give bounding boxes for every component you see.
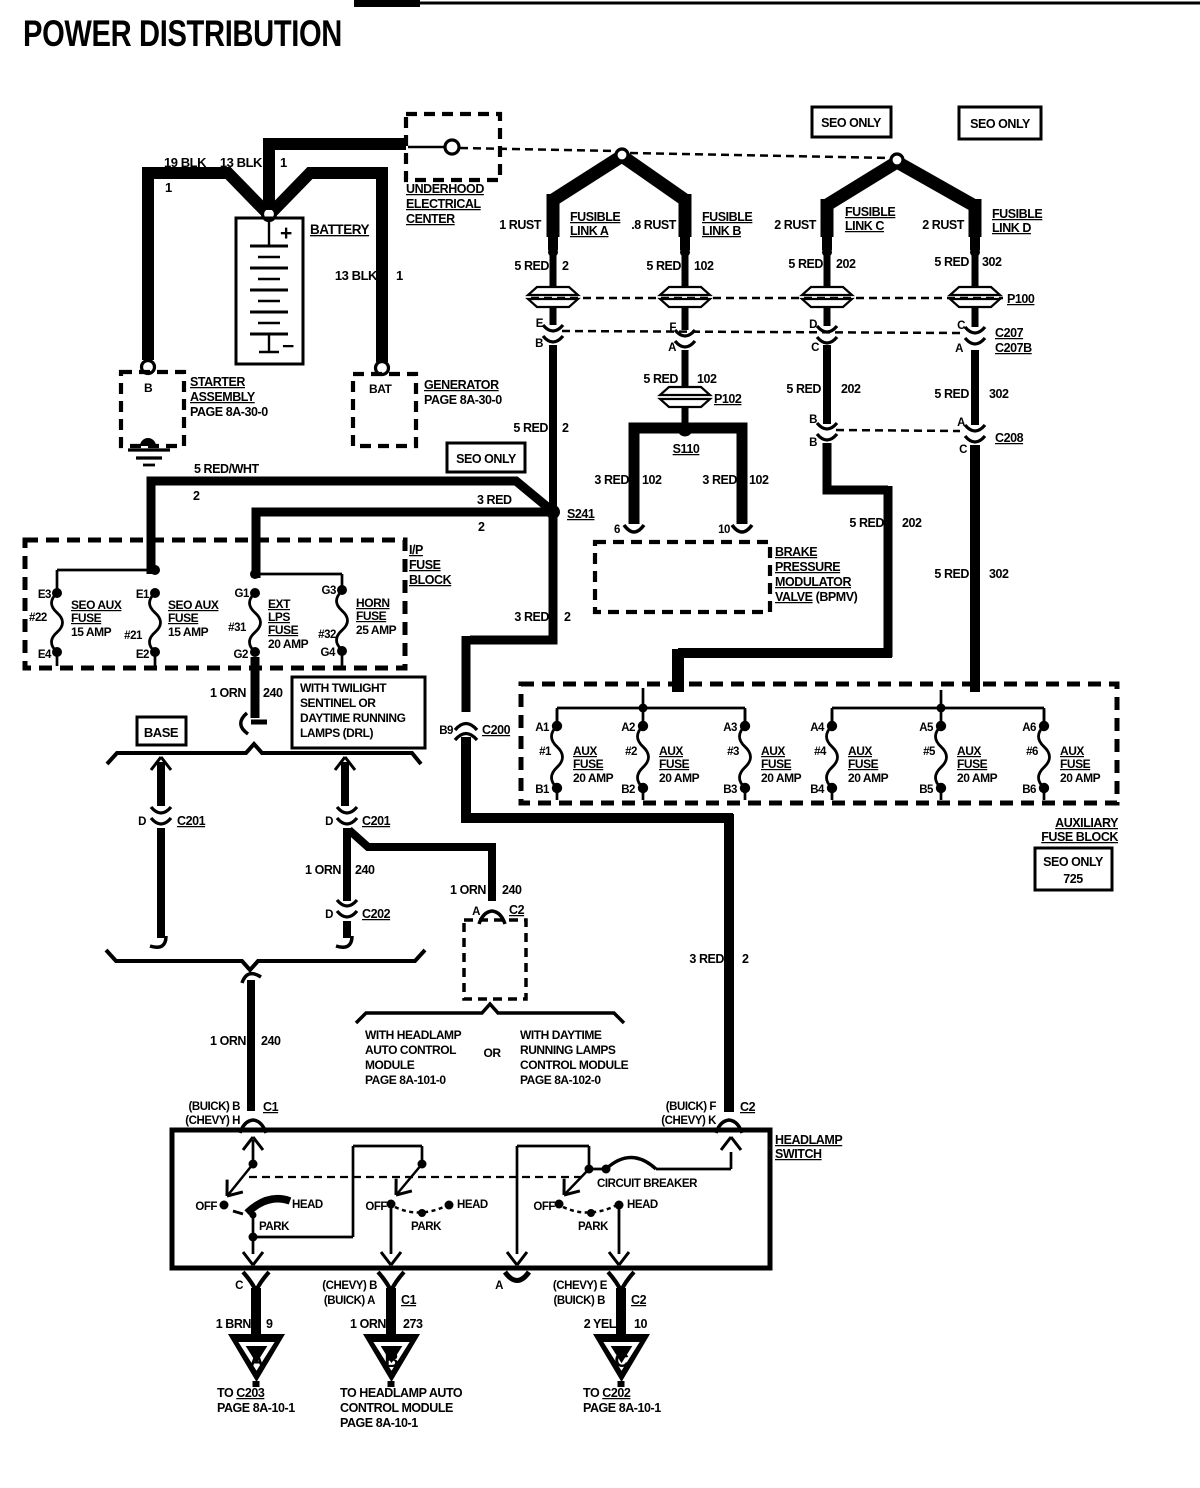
wire fusible link feed LINK C	[821, 199, 834, 237]
svg-text:5 RED: 5 RED	[643, 372, 678, 386]
svg-text:C207B: C207B	[995, 341, 1032, 355]
svg-text:PAGE 8A-10-1: PAGE 8A-10-1	[217, 1401, 295, 1415]
svg-text:25 AMP: 25 AMP	[356, 623, 397, 637]
svg-text:B9: B9	[439, 725, 453, 737]
svg-text:D: D	[325, 816, 333, 828]
switch 2 feed junction	[418, 1160, 427, 1169]
triangle connector A to C203	[228, 1334, 285, 1382]
svg-text:PAGE 8A-30-0: PAGE 8A-30-0	[190, 405, 268, 419]
fuse AUX #3 20 AMP	[744, 710, 747, 722]
svg-text:FUSE: FUSE	[356, 609, 387, 623]
svg-text:C208: C208	[995, 431, 1024, 445]
svg-text:725: 725	[1063, 872, 1083, 886]
svg-text:1 ORN: 1 ORN	[210, 1034, 246, 1048]
svg-text:PAGE 8A-102-0: PAGE 8A-102-0	[520, 1073, 601, 1087]
switch 2 output to pin B	[390, 1208, 393, 1254]
svg-text:SWITCH: SWITCH	[775, 1147, 822, 1161]
wire 13 BLK battery to underhood electrical center	[263, 144, 275, 210]
svg-text:POWER DISTRIBUTION: POWER DISTRIBUTION	[23, 13, 342, 54]
svg-text:A: A	[955, 343, 963, 355]
svg-text:A: A	[250, 1350, 264, 1372]
svg-text:20 AMP: 20 AMP	[659, 771, 700, 785]
connector C2 pin K into switch	[716, 1120, 742, 1133]
svg-text:AUX: AUX	[659, 744, 683, 758]
svg-text:S241: S241	[567, 507, 595, 521]
fuse AUX #6 20 AMP	[1043, 710, 1046, 722]
svg-text:SEO ONLY: SEO ONLY	[456, 452, 517, 466]
svg-text:TO C202: TO C202	[583, 1386, 631, 1400]
connector pass-through P102	[660, 387, 710, 407]
wire C202 down to option bracket	[343, 921, 351, 938]
svg-text:2 YEL: 2 YEL	[584, 1317, 617, 1331]
svg-text:5 RED: 5 RED	[934, 255, 969, 269]
svg-text:HEAD: HEAD	[457, 1199, 488, 1211]
svg-text:PAGE 8A-30-0: PAGE 8A-30-0	[424, 393, 502, 407]
svg-text:WITH HEADLAMP: WITH HEADLAMP	[365, 1028, 462, 1042]
svg-text:E1: E1	[136, 589, 150, 601]
svg-text:SENTINEL OR: SENTINEL OR	[300, 696, 376, 710]
svg-text:PAGE 8A-101-0: PAGE 8A-101-0	[365, 1073, 446, 1087]
svg-text:20 AMP: 20 AMP	[761, 771, 802, 785]
wire C201 left down to option bracket	[157, 828, 165, 938]
wire P102 to S110	[682, 407, 689, 424]
connector pass-through P100 leg C	[802, 287, 852, 307]
svg-text:#4: #4	[814, 746, 827, 758]
svg-text:#22: #22	[29, 612, 47, 624]
svg-text:FUSIBLE: FUSIBLE	[992, 207, 1042, 221]
svg-text:A: A	[472, 906, 480, 918]
connector C208 A-C leg D	[965, 425, 985, 442]
svg-text:LINK B: LINK B	[702, 224, 741, 238]
svg-text:5 RED: 5 RED	[514, 259, 549, 273]
svg-text:240: 240	[261, 1034, 281, 1048]
svg-text:CONTROL MODULE: CONTROL MODULE	[520, 1058, 629, 1072]
svg-text:202: 202	[841, 382, 861, 396]
connector pass-through P100 leg D	[950, 287, 1000, 307]
connector half at G2 wire end	[241, 713, 248, 734]
svg-text:DAYTIME RUNNING: DAYTIME RUNNING	[300, 711, 406, 725]
svg-text:240: 240	[502, 883, 522, 897]
battery BATTERY	[236, 218, 303, 364]
svg-text:2: 2	[562, 259, 569, 273]
svg-text:AUXILIARY: AUXILIARY	[1055, 816, 1119, 830]
wire 5 RED/WHT S241 to IP fuse block	[151, 481, 551, 574]
wire 3 RED 102 S110 right branch to BPMV pin 10	[689, 428, 742, 524]
svg-text:PAGE 8A-10-1: PAGE 8A-10-1	[340, 1416, 418, 1430]
wire 5 RED 302 link D to C208 row	[971, 350, 979, 425]
wire peak C-D inverted V	[827, 162, 973, 205]
svg-text:302: 302	[989, 567, 1009, 581]
svg-text:P100: P100	[1007, 292, 1035, 306]
switch 1 PARK output junction	[252, 1215, 255, 1237]
svg-text:SEO AUX: SEO AUX	[168, 598, 219, 612]
svg-text:A: A	[668, 342, 676, 354]
svg-text:B: B	[385, 1350, 399, 1372]
svg-text:B5: B5	[919, 784, 934, 796]
wire P100 to C207 row leg C	[824, 307, 831, 326]
underhood electrical center box	[406, 114, 500, 180]
svg-text:FUSIBLE: FUSIBLE	[845, 205, 895, 219]
terminal ring generator BAT	[376, 362, 389, 375]
switch 1 contact arc PARK-HEAD	[233, 1211, 243, 1214]
connector pin 6 BPMV	[624, 525, 644, 532]
connector C207 E-B leg A	[543, 325, 563, 342]
svg-text:CONTROL MODULE: CONTROL MODULE	[340, 1401, 453, 1415]
svg-text:2: 2	[478, 520, 485, 534]
svg-text:5 RED/WHT: 5 RED/WHT	[194, 462, 260, 476]
svg-text:240: 240	[355, 863, 375, 877]
svg-text:MODULATOR: MODULATOR	[775, 575, 851, 589]
svg-text:2 RUST: 2 RUST	[922, 218, 965, 232]
svg-text:FUSE: FUSE	[168, 611, 199, 625]
svg-text:(BUICK) F: (BUICK) F	[666, 1101, 717, 1113]
wire P100 to C207 row leg B	[682, 307, 689, 330]
switch ganged linkage dashed line	[249, 1176, 585, 1178]
svg-text:LAMPS (DRL): LAMPS (DRL)	[300, 726, 373, 740]
svg-text:G2: G2	[234, 649, 248, 661]
svg-text:2 RUST: 2 RUST	[774, 218, 817, 232]
connector C201 right pin D	[337, 807, 357, 824]
svg-text:A1: A1	[535, 722, 550, 734]
svg-text:102: 102	[642, 473, 662, 487]
fuse AUX #1 20 AMP	[556, 710, 559, 722]
svg-text:FUSE: FUSE	[848, 757, 879, 771]
svg-text:BLOCK: BLOCK	[409, 573, 452, 587]
svg-text:C200: C200	[482, 723, 511, 737]
svg-text:C2: C2	[631, 1293, 647, 1307]
svg-text:302: 302	[982, 255, 1002, 269]
svg-text:HORN: HORN	[356, 596, 390, 610]
svg-text:CIRCUIT BREAKER: CIRCUIT BREAKER	[597, 1178, 698, 1190]
svg-text:FUSE: FUSE	[573, 757, 604, 771]
box SEO ONLY right	[959, 107, 1041, 139]
switch 3 dashed contact arc	[563, 1205, 617, 1213]
svg-text:C: C	[957, 320, 965, 332]
svg-text:OFF: OFF	[365, 1201, 387, 1213]
svg-text:FUSE: FUSE	[957, 757, 988, 771]
svg-text:3 RED: 3 RED	[477, 493, 512, 507]
switch 3 OFF contact	[555, 1200, 564, 1209]
svg-text:#5: #5	[923, 746, 936, 758]
svg-text:20 AMP: 20 AMP	[1060, 771, 1101, 785]
switch 3 bypass output to pin A	[516, 1146, 519, 1254]
wire 13 BLK battery to generator	[273, 173, 386, 211]
connector C207 D-C leg C	[817, 326, 837, 343]
junction node E1 feed	[150, 565, 160, 575]
svg-text:3 RED: 3 RED	[594, 473, 629, 487]
wire 3 RED 102 S110 left branch to BPMV pin 6	[634, 428, 681, 524]
svg-text:AUX: AUX	[957, 744, 981, 758]
svg-text:FUSE: FUSE	[409, 558, 441, 572]
splice S241	[546, 505, 560, 519]
svg-text:B3: B3	[723, 784, 737, 796]
svg-text:A6: A6	[1022, 722, 1036, 734]
fuse #32 HORN FUSE 25 AMP	[337, 585, 347, 595]
svg-text:BAT: BAT	[369, 382, 393, 396]
svg-text:SEO ONLY: SEO ONLY	[821, 116, 882, 130]
switch 1 OFF contact	[220, 1201, 229, 1210]
svg-text:5 RED: 5 RED	[513, 421, 548, 435]
svg-text:A: A	[495, 1280, 503, 1292]
svg-text:9: 9	[266, 1317, 273, 1331]
svg-text:273: 273	[403, 1317, 423, 1331]
wire 5 RED 202 C208 to auxiliary fuse block	[827, 443, 888, 490]
svg-text:LINK A: LINK A	[570, 224, 609, 238]
page-top scan artifact line	[354, 0, 420, 7]
svg-text:PARK: PARK	[411, 1221, 442, 1233]
box BASE	[137, 717, 186, 745]
svg-text:B: B	[809, 437, 817, 449]
headlamp switch box	[172, 1130, 770, 1268]
wire peak A-B inverted V	[553, 156, 685, 200]
svg-text:102: 102	[749, 473, 769, 487]
svg-text:E3: E3	[38, 589, 51, 601]
switch 1 output to pin C	[252, 1237, 255, 1254]
svg-text:C1: C1	[263, 1100, 279, 1114]
svg-text:FUSE BLOCK: FUSE BLOCK	[1041, 830, 1118, 844]
wire fusible link feed LINK B	[679, 194, 692, 237]
svg-text:C202: C202	[362, 907, 391, 921]
svg-text:5 RED: 5 RED	[786, 382, 821, 396]
wire link D to P100 row	[972, 252, 979, 292]
svg-text:ASSEMBLY: ASSEMBLY	[190, 390, 256, 404]
wire 1 ORN 240 C201 right to C202	[343, 828, 351, 901]
svg-text:13 BLK: 13 BLK	[220, 155, 263, 170]
svg-text:PAGE 8A-10-1: PAGE 8A-10-1	[583, 1401, 661, 1415]
svg-text:10: 10	[634, 1317, 648, 1331]
svg-text:OFF: OFF	[195, 1201, 217, 1213]
svg-text:1: 1	[165, 180, 172, 195]
terminal ring starter B	[142, 361, 155, 374]
svg-text:D: D	[138, 816, 146, 828]
svg-text:1 ORN: 1 ORN	[350, 1317, 386, 1331]
svg-text:102: 102	[694, 259, 714, 273]
fuse #22 SEO AUX FUSE 15 AMP	[52, 588, 62, 598]
wire link A to P100 row	[550, 252, 557, 292]
svg-text:20 AMP: 20 AMP	[573, 771, 614, 785]
triangle connector B to headlamp auto control module	[363, 1334, 420, 1382]
triangle connector C to C202	[593, 1334, 650, 1382]
connector pass-through P100 leg A	[528, 287, 578, 307]
svg-text:A4: A4	[810, 722, 825, 734]
svg-text:(CHEVY) H: (CHEVY) H	[185, 1115, 240, 1127]
svg-text:BATTERY: BATTERY	[310, 222, 370, 237]
box WITH TWILIGHT SENTINEL OR DAYTIME RUNNING LAMPS DRL	[292, 677, 425, 748]
svg-text:TO C203: TO C203	[217, 1386, 265, 1400]
connector C1 pin H into switch	[240, 1120, 266, 1133]
svg-text:1 RUST: 1 RUST	[499, 218, 542, 232]
svg-text:FUSE: FUSE	[659, 757, 690, 771]
wire 3 RED 2 S241 down to C200	[470, 516, 553, 640]
svg-text:1 BRN: 1 BRN	[216, 1317, 252, 1331]
svg-text:3 RED: 3 RED	[689, 952, 724, 966]
bus rail aux fuses A1-A3	[642, 688, 645, 706]
svg-text:2: 2	[562, 421, 569, 435]
wire 5 RED 102 link B to P102	[682, 350, 689, 390]
option bracket BASE vs DRL	[107, 744, 421, 764]
svg-text:2: 2	[193, 489, 200, 503]
svg-text:WITH DAYTIME: WITH DAYTIME	[520, 1028, 602, 1042]
wire branch C201 right to connector C2	[349, 830, 496, 847]
connector pin 10 BPMV	[732, 525, 752, 532]
svg-text:(BUICK) B: (BUICK) B	[188, 1101, 240, 1113]
svg-text:2: 2	[742, 952, 749, 966]
svg-text:AUX: AUX	[848, 744, 872, 758]
svg-text:B: B	[144, 381, 153, 395]
module option box at C2	[464, 920, 526, 999]
svg-text:B6: B6	[1022, 784, 1036, 796]
svg-text:FUSIBLE: FUSIBLE	[702, 210, 752, 224]
svg-text:.8 RUST: .8 RUST	[631, 218, 677, 232]
wire link C to P100 row	[824, 252, 831, 292]
svg-text:(BUICK) B: (BUICK) B	[553, 1295, 605, 1307]
svg-text:HEAD: HEAD	[627, 1199, 658, 1211]
svg-text:UNDERHOOD: UNDERHOOD	[406, 182, 484, 196]
svg-text:FUSE: FUSE	[761, 757, 792, 771]
svg-text:15 AMP: 15 AMP	[71, 625, 112, 639]
svg-text:2: 2	[564, 610, 571, 624]
wire 5 RED 2 link A down to S241	[549, 345, 557, 506]
wire 3 RED 2 S241 to IP fuse block	[256, 512, 549, 578]
svg-text:EXT: EXT	[268, 597, 291, 611]
box SEO ONLY 725	[1035, 848, 1112, 890]
svg-text:AUX: AUX	[761, 744, 785, 758]
connector pin C switch output	[243, 1272, 269, 1291]
svg-text:G1: G1	[235, 588, 250, 600]
svg-text:10: 10	[718, 524, 730, 536]
link wire switch1 to switch2 feed	[253, 1236, 353, 1239]
svg-text:5 RED: 5 RED	[934, 387, 969, 401]
fuse AUX #2 20 AMP	[642, 710, 645, 722]
connector C2 pin A headlamp module	[479, 911, 505, 924]
svg-text:TO HEADLAMP AUTO: TO HEADLAMP AUTO	[340, 1386, 463, 1400]
svg-text:3 RED: 3 RED	[702, 473, 737, 487]
wire link B to P100 row	[682, 252, 689, 292]
svg-text:5 RED: 5 RED	[646, 259, 681, 273]
connector pin A unused switch output	[505, 1272, 529, 1281]
svg-text:E: E	[536, 318, 544, 330]
svg-text:BASE: BASE	[144, 725, 179, 740]
svg-text:6: 6	[614, 524, 620, 536]
connector C201 left pin D	[151, 807, 171, 824]
switch 3 HEAD output to pin E	[618, 1208, 621, 1254]
wire 1 ORN 240 to headlamp switch pin H	[242, 974, 261, 983]
splice S110	[678, 422, 693, 437]
svg-text:−: −	[282, 335, 294, 358]
wire 1 ORN 240 fuse G2 output	[251, 657, 260, 718]
dashed line through P100 connectors	[531, 297, 1003, 300]
svg-text:1: 1	[280, 155, 287, 170]
svg-text:ELECTRICAL: ELECTRICAL	[406, 197, 481, 211]
svg-text:E2: E2	[136, 649, 149, 661]
svg-text:15 AMP: 15 AMP	[168, 625, 209, 639]
switch 3 wiper arm	[565, 1169, 589, 1194]
svg-text:1 ORN: 1 ORN	[450, 883, 486, 897]
svg-text:AUX: AUX	[1060, 744, 1084, 758]
svg-text:FUSE: FUSE	[71, 611, 102, 625]
node battery positive junction	[263, 208, 276, 221]
svg-text:PARK: PARK	[259, 1221, 290, 1233]
wire 3 RED 2 C200 to headlamp switch pin K	[466, 737, 733, 818]
svg-text:OR: OR	[483, 1046, 501, 1060]
svg-text:FUSE: FUSE	[1060, 757, 1091, 771]
svg-text:202: 202	[902, 516, 922, 530]
svg-text:HEAD: HEAD	[292, 1199, 323, 1211]
fuse #21 SEO AUX FUSE 15 AMP	[150, 588, 160, 598]
svg-text:(BUICK) A: (BUICK) A	[324, 1295, 375, 1307]
connector C208 B-B leg C	[817, 423, 837, 440]
svg-text:PARK: PARK	[578, 1221, 609, 1233]
svg-text:FUSE: FUSE	[268, 623, 299, 637]
connector C207-C207B C-A leg D	[965, 327, 985, 344]
node underhood feed	[408, 146, 444, 148]
node fusible link peak C-D	[891, 154, 903, 166]
svg-text:LPS: LPS	[268, 610, 290, 624]
svg-text:C: C	[615, 1350, 629, 1372]
IP fuse block box	[25, 540, 405, 668]
svg-text:STARTER: STARTER	[190, 375, 245, 389]
svg-text:19 BLK: 19 BLK	[164, 155, 207, 170]
connector pass-through P100 leg B	[660, 287, 710, 307]
svg-text:CENTER: CENTER	[406, 212, 455, 226]
box SEO ONLY left	[812, 107, 891, 137]
auxiliary fuse block box	[521, 684, 1117, 803]
svg-text:B4: B4	[810, 784, 825, 796]
svg-text:1 ORN: 1 ORN	[210, 686, 246, 700]
wire 19 BLK battery to starter	[152, 173, 265, 211]
svg-text:OFF: OFF	[533, 1201, 555, 1213]
svg-text:RUNNING LAMPS: RUNNING LAMPS	[520, 1043, 616, 1057]
svg-text:D: D	[809, 319, 817, 331]
svg-text:B2: B2	[621, 784, 635, 796]
svg-text:PRESSURE: PRESSURE	[775, 560, 840, 574]
svg-text:B: B	[535, 338, 543, 350]
svg-text:D: D	[325, 909, 333, 921]
svg-text:C201: C201	[177, 814, 206, 828]
svg-text:B1: B1	[535, 784, 550, 796]
svg-text:C1: C1	[401, 1293, 417, 1307]
svg-text:+: +	[280, 222, 292, 245]
svg-text:240: 240	[263, 686, 283, 700]
svg-text:FUSIBLE: FUSIBLE	[570, 210, 620, 224]
svg-text:#32: #32	[318, 629, 336, 641]
connector C1 pins B-A switch output	[378, 1272, 404, 1291]
connector C200 pin B9	[455, 724, 477, 741]
switch 1 feed entry H	[243, 1137, 263, 1150]
svg-text:C207: C207	[995, 326, 1024, 340]
connector C202 pin D	[337, 900, 357, 917]
svg-text:BRAKE: BRAKE	[775, 545, 817, 559]
svg-text:5 RED: 5 RED	[788, 257, 823, 271]
option bracket headlamp auto vs DRL module	[356, 1004, 624, 1023]
wire DRL branch to C201 right	[335, 757, 355, 770]
svg-text:3 RED: 3 RED	[514, 610, 549, 624]
svg-text:C2: C2	[509, 903, 525, 917]
svg-text:AUX: AUX	[573, 744, 597, 758]
svg-text:VALVE (BPMV): VALVE (BPMV)	[775, 590, 858, 604]
svg-text:C: C	[235, 1280, 243, 1292]
wire 5 RED 202 link C to C208 row	[823, 345, 831, 424]
svg-text:LINK D: LINK D	[992, 221, 1031, 235]
svg-text:A: A	[957, 417, 965, 429]
svg-text:SEO AUX: SEO AUX	[71, 598, 122, 612]
svg-text:#31: #31	[228, 622, 247, 634]
svg-text:A2: A2	[621, 722, 635, 734]
switch 2 wiper arm	[397, 1164, 422, 1194]
svg-text:C: C	[811, 342, 819, 354]
svg-text:SEO ONLY: SEO ONLY	[970, 117, 1031, 131]
svg-text:20 AMP: 20 AMP	[957, 771, 998, 785]
